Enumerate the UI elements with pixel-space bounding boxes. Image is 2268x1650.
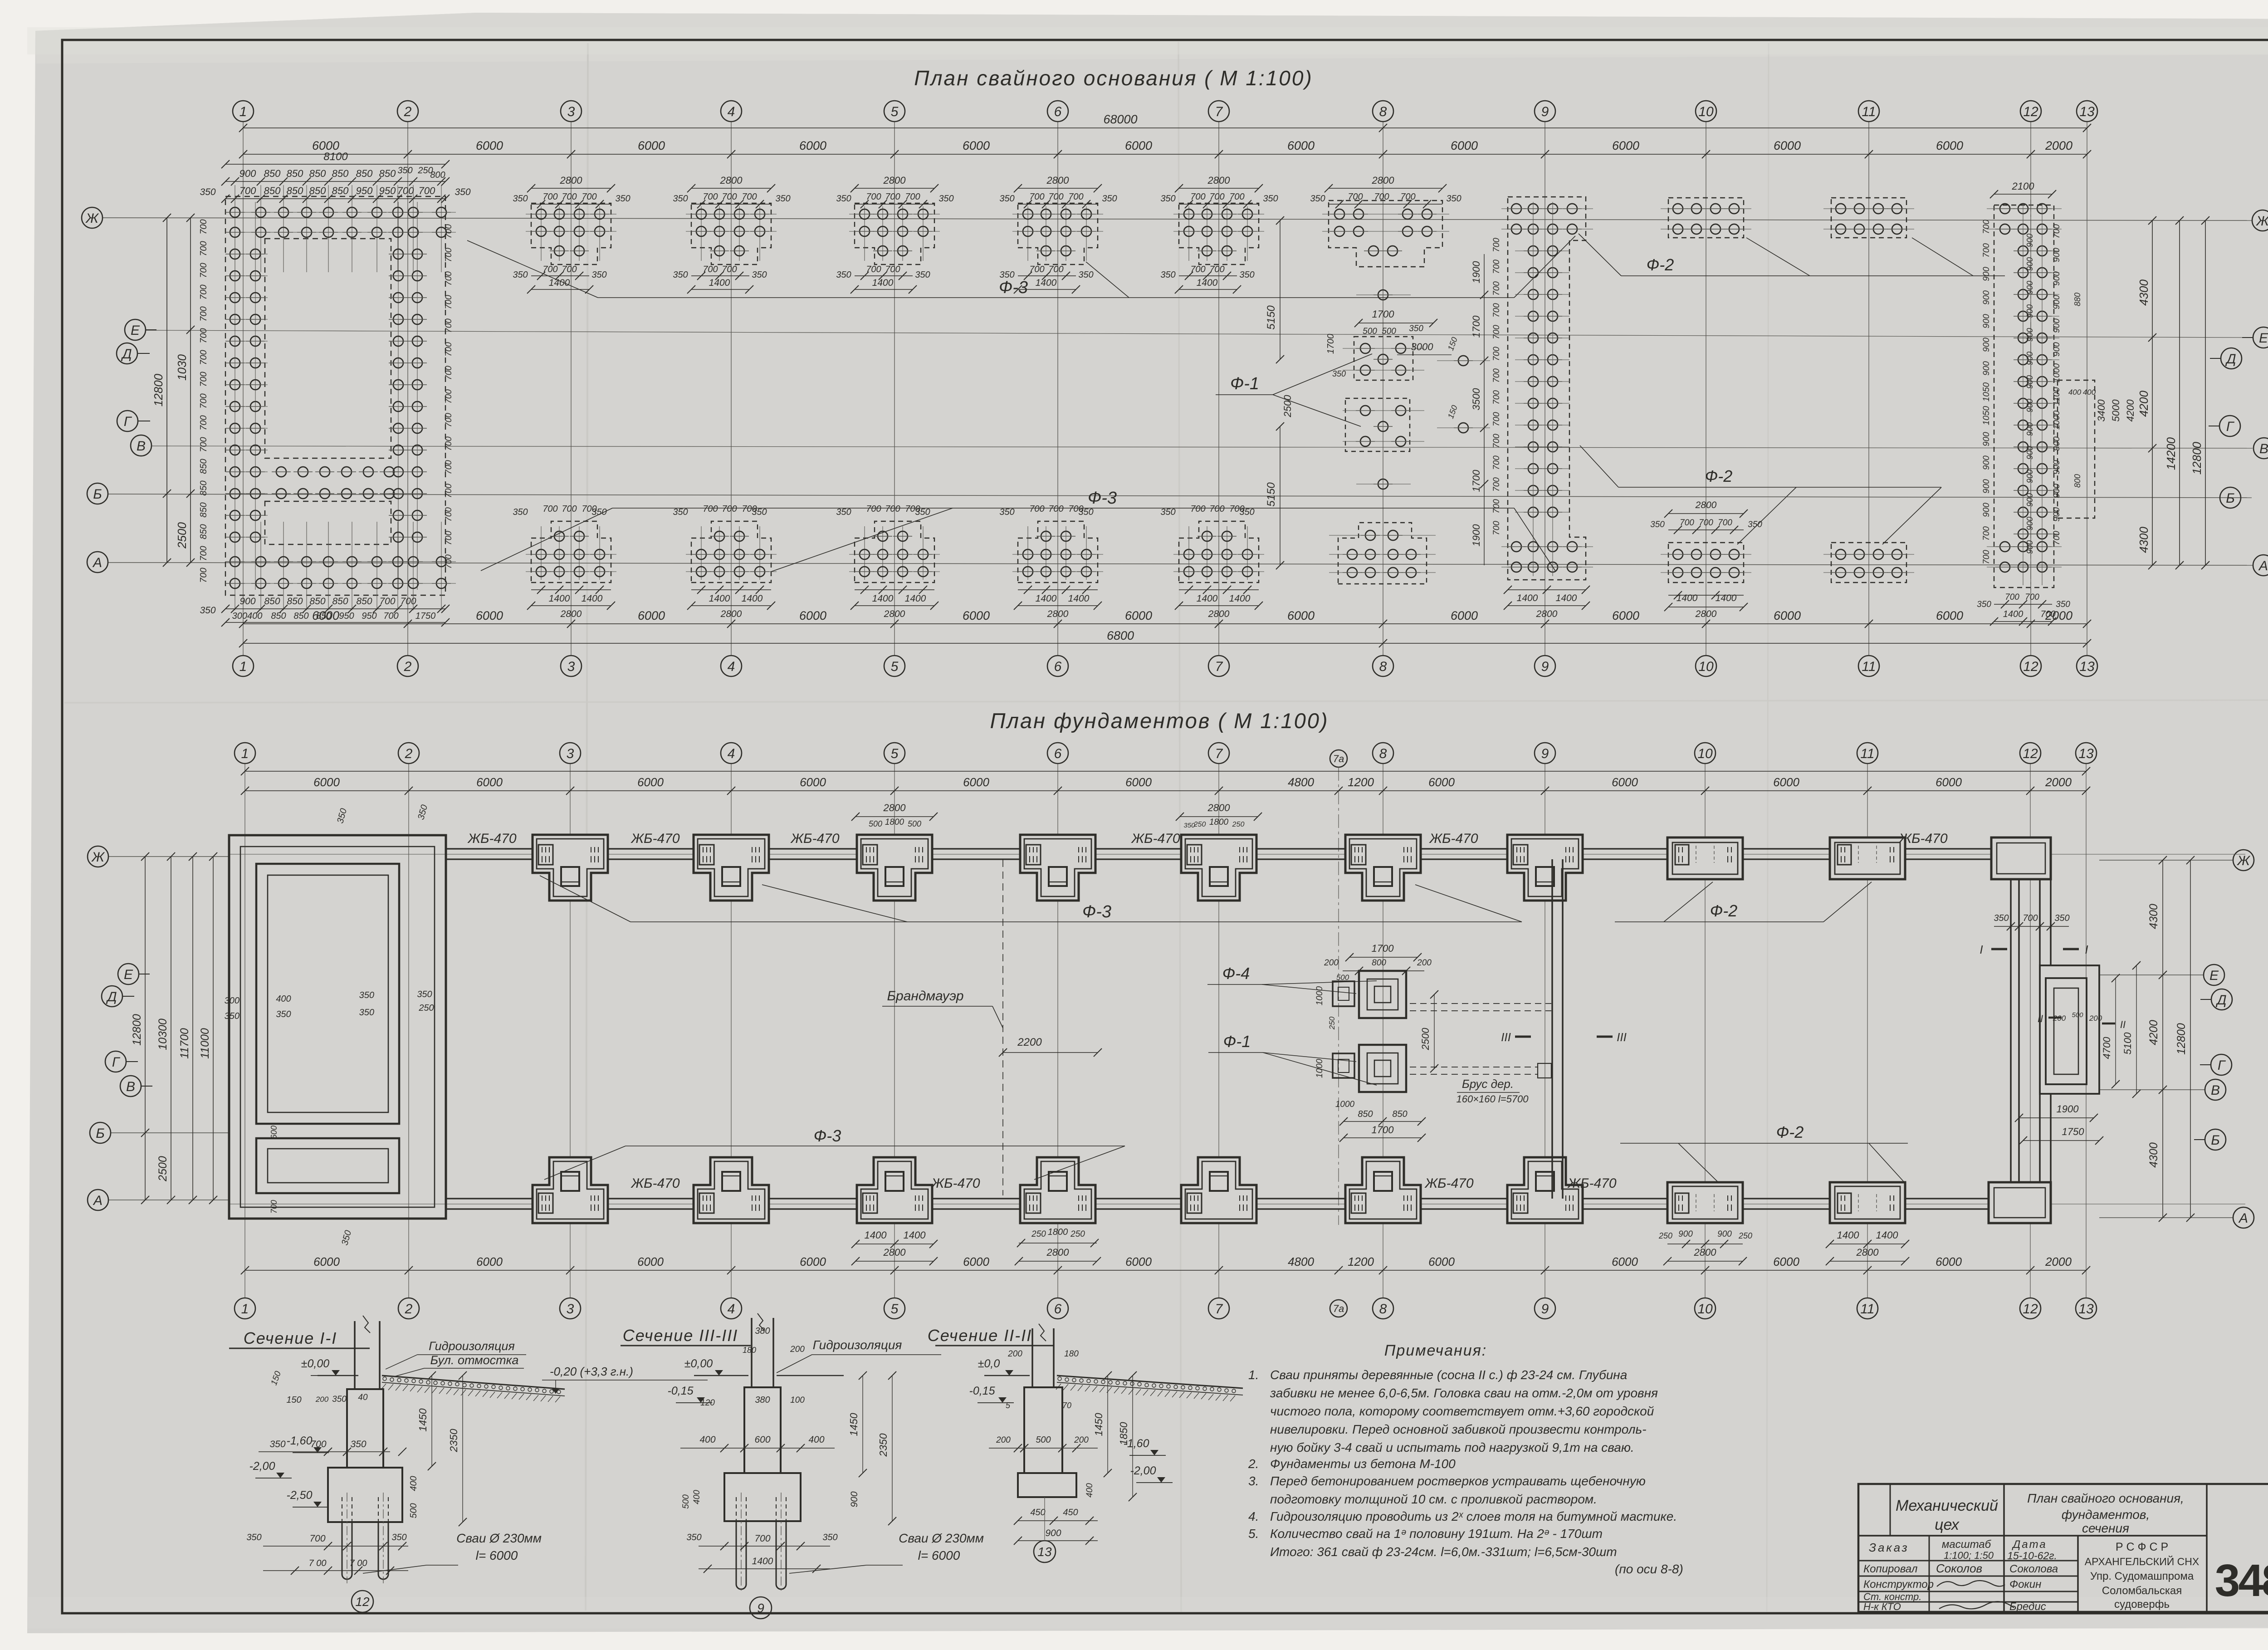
svg-text:350: 350 [359,990,374,1000]
svg-text:700: 700 [444,554,454,569]
svg-text:ЖБ-470: ЖБ-470 [1898,831,1947,846]
svg-text:350: 350 [2054,913,2069,923]
svg-text:400: 400 [692,1490,702,1504]
svg-text:6000: 6000 [1125,1255,1152,1268]
svg-text:1400: 1400 [549,278,570,288]
svg-text:2350: 2350 [448,1429,459,1452]
svg-text:6000: 6000 [1451,609,1478,622]
svg-text:700: 700 [444,295,454,309]
svg-text:700: 700 [1190,504,1205,514]
svg-text:3: 3 [567,659,575,674]
svg-text:900: 900 [2025,257,2034,271]
svg-text:сечения: сечения [2082,1521,2129,1535]
svg-text:350: 350 [1160,507,1175,517]
svg-text:700: 700 [1400,192,1415,202]
svg-text:700: 700 [199,219,209,234]
svg-text:350: 350 [1160,270,1175,280]
svg-text:350: 350 [200,605,215,616]
svg-text:Брус дер.: Брус дер. [1462,1077,1514,1091]
svg-text:5100: 5100 [2122,1032,2133,1055]
svg-text:900: 900 [2052,295,2062,309]
svg-text:350: 350 [999,507,1014,517]
svg-text:5: 5 [891,104,899,119]
svg-text:5150: 5150 [1265,305,1277,330]
svg-text:1400: 1400 [1036,593,1057,604]
svg-text:1400: 1400 [872,593,894,604]
svg-text:850: 850 [199,480,209,495]
svg-text:950: 950 [339,611,354,621]
svg-text:6800: 6800 [1107,629,1134,642]
svg-text:Конструктор: Конструктор [1863,1578,1934,1591]
svg-text:Сечение II-II: Сечение II-II [928,1326,1032,1345]
svg-text:700: 700 [1209,192,1224,202]
svg-text:350: 350 [615,194,630,204]
svg-text:6000: 6000 [1287,609,1315,622]
svg-text:2200: 2200 [1017,1036,1042,1048]
svg-text:6000: 6000 [1428,1255,1455,1268]
svg-text:900: 900 [2052,436,2062,451]
svg-text:700: 700 [1048,504,1063,514]
svg-text:900: 900 [2052,342,2062,357]
svg-text:350: 350 [359,1008,374,1018]
svg-text:2800: 2800 [883,802,906,813]
svg-text:6000: 6000 [638,139,665,152]
svg-text:Г: Г [112,1055,121,1070]
svg-text:900: 900 [2025,399,2034,412]
svg-text:ЖБ-470: ЖБ-470 [630,831,679,846]
svg-text:350: 350 [1310,194,1325,204]
svg-text:Ф-3: Ф-3 [999,278,1028,297]
svg-text:6000: 6000 [799,139,826,152]
svg-text:700: 700 [1492,521,1501,535]
svg-text:Примечания:: Примечания: [1384,1342,1487,1359]
svg-text:13: 13 [2078,1302,2094,1317]
svg-text:План свайного основания,: План свайного основания, [2027,1491,2184,1505]
svg-text:Соломбальская: Соломбальская [2102,1585,2182,1597]
svg-text:2800: 2800 [883,175,906,186]
svg-text:900: 900 [2052,248,2062,262]
svg-text:2: 2 [405,1302,413,1317]
svg-text:350: 350 [397,166,412,176]
svg-text:Е: Е [124,967,133,982]
svg-text:6000: 6000 [638,609,665,622]
svg-text:700: 700 [2052,531,2062,545]
svg-text:900: 900 [2052,507,2062,522]
svg-text:400: 400 [2068,388,2082,397]
svg-text:нивелировки. Перед основной за: нивелировки. Перед основной забивкой про… [1270,1422,1647,1436]
svg-text:700: 700 [199,241,209,256]
svg-text:12800: 12800 [2175,1023,2188,1055]
svg-text:500: 500 [2072,1011,2083,1019]
svg-text:8100: 8100 [323,151,348,163]
svg-text:12: 12 [2023,1302,2038,1317]
svg-text:700: 700 [444,436,454,451]
svg-text:3000: 3000 [1411,341,1434,353]
svg-text:700: 700 [199,568,209,583]
svg-text:12: 12 [2023,746,2038,761]
svg-text:4300: 4300 [2137,527,2151,553]
svg-text:900: 900 [240,596,255,607]
svg-text:700: 700 [269,1200,279,1214]
svg-text:2800: 2800 [1047,609,1069,619]
svg-text:850: 850 [199,502,209,517]
svg-text:350: 350 [938,194,953,204]
svg-text:500: 500 [681,1494,691,1509]
svg-text:900: 900 [2052,460,2062,475]
svg-text:ЖБ-470: ЖБ-470 [930,1176,980,1191]
svg-text:-1,60: -1,60 [1124,1437,1149,1450]
svg-text:900: 900 [1982,314,1991,328]
svg-text:350: 350 [915,270,930,280]
svg-text:880: 880 [2073,293,2082,306]
svg-text:ЖБ-470: ЖБ-470 [1428,831,1478,846]
svg-text:950: 950 [356,185,373,196]
svg-text:350: 350 [1263,194,1278,204]
svg-text:6000: 6000 [1774,609,1801,622]
svg-text:Ж: Ж [85,211,99,226]
svg-text:Р С Ф С Р: Р С Ф С Р [2116,1541,2168,1553]
svg-text:1: 1 [241,1302,249,1317]
svg-text:700: 700 [444,366,454,380]
svg-text:900: 900 [2052,318,2062,333]
svg-text:850: 850 [1358,1109,1373,1119]
svg-text:4800: 4800 [1288,775,1314,789]
svg-text:500: 500 [1382,327,1396,336]
svg-text:2000: 2000 [2045,1255,2072,1268]
svg-text:700: 700 [1068,504,1083,514]
svg-text:700: 700 [444,413,454,427]
svg-text:5: 5 [891,746,899,761]
svg-text:1450: 1450 [848,1413,860,1436]
svg-text:Соколов: Соколов [1936,1562,1982,1575]
svg-text:2800: 2800 [560,175,583,186]
svg-text:850: 850 [264,168,281,179]
svg-text:3: 3 [567,746,574,761]
svg-text:2100: 2100 [2012,181,2035,192]
svg-text:Г: Г [124,414,132,429]
svg-text:700: 700 [1718,518,1732,528]
svg-text:Е: Е [2259,331,2268,346]
svg-text:900: 900 [1982,479,1991,494]
svg-text:700: 700 [199,263,209,278]
svg-text:850: 850 [356,168,373,179]
svg-text:700: 700 [1982,526,1991,541]
svg-text:850: 850 [264,596,280,607]
svg-text:12: 12 [355,1595,370,1609]
svg-text:250: 250 [418,1003,434,1013]
svg-text:Д: Д [2215,993,2226,1008]
svg-text:Фундаменты из бетона М-100: Фундаменты из бетона М-100 [1270,1457,1456,1471]
svg-text:1050: 1050 [1982,406,1991,425]
svg-text:6000: 6000 [1936,139,1963,152]
svg-text:900: 900 [2025,517,2034,530]
svg-text:6000: 6000 [476,1255,503,1268]
svg-text:забивки не менее 6,0-6,5м. Гол: забивки не менее 6,0-6,5м. Головка сваи … [1270,1386,1658,1400]
svg-text:4800: 4800 [1288,1255,1314,1268]
svg-text:700: 700 [240,185,256,196]
svg-text:800: 800 [1372,958,1386,968]
svg-text:3500: 3500 [1471,388,1482,411]
svg-text:6000: 6000 [1936,775,1962,789]
svg-text:380: 380 [755,1395,770,1405]
svg-text:4200: 4200 [2125,399,2136,422]
svg-text:-2,50: -2,50 [287,1489,313,1502]
svg-text:11: 11 [1862,104,1876,119]
svg-text:1200: 1200 [1348,1255,1374,1268]
svg-text:1400: 1400 [709,593,730,604]
svg-text:7 00: 7 00 [309,1558,327,1568]
svg-text:800: 800 [2073,474,2082,488]
svg-text:4200: 4200 [2137,391,2151,417]
svg-text:1100: 1100 [2052,387,2062,406]
svg-text:Ж: Ж [91,850,105,865]
svg-text:850: 850 [309,168,326,179]
svg-text:700: 700 [2052,224,2062,239]
svg-text:850: 850 [1392,1109,1407,1119]
svg-text:6000: 6000 [1287,139,1315,152]
svg-text:1700: 1700 [1326,334,1336,354]
svg-text:2350: 2350 [877,1433,889,1457]
svg-text:1700: 1700 [1372,308,1395,320]
svg-text:Ф-3: Ф-3 [814,1126,841,1145]
svg-text:700: 700 [444,318,454,333]
svg-text:700: 700 [543,504,557,514]
svg-text:3: 3 [567,104,575,119]
svg-text:350: 350 [836,507,851,517]
svg-text:6: 6 [1054,1302,1062,1317]
svg-text:1750: 1750 [2062,1126,2085,1137]
svg-text:850: 850 [199,459,209,474]
svg-text:900: 900 [1982,290,1991,305]
svg-text:10: 10 [1697,1302,1713,1317]
svg-text:200: 200 [790,1345,805,1354]
svg-text:4: 4 [728,746,735,761]
svg-text:2800: 2800 [720,609,742,619]
svg-text:11: 11 [1860,746,1874,761]
svg-text:500: 500 [409,1503,419,1518]
svg-text:1700: 1700 [1372,943,1394,954]
svg-text:9: 9 [1541,659,1549,674]
svg-text:9: 9 [1541,746,1549,761]
svg-text:1800: 1800 [1209,818,1229,827]
svg-text:350: 350 [673,507,688,517]
svg-text:450: 450 [1063,1508,1078,1518]
svg-text:2800: 2800 [884,609,905,619]
svg-text:6000: 6000 [637,775,664,789]
svg-text:7: 7 [1215,104,1223,119]
svg-text:120: 120 [700,1398,715,1408]
svg-text:6000: 6000 [476,609,503,622]
svg-text:1000: 1000 [2052,363,2062,382]
svg-text:700: 700 [383,611,398,621]
svg-text:6000: 6000 [1612,775,1638,789]
svg-text:Гидроизоляция: Гидроизоляция [429,1339,515,1353]
svg-text:Итого: 361 свай ф 23-24см. l=: Итого: 361 свай ф 23-24см. l=6,0м.-331шт… [1270,1545,1617,1559]
svg-text:700: 700 [199,437,209,452]
svg-text:350: 350 [822,1532,837,1542]
svg-text:1450: 1450 [1093,1413,1105,1436]
svg-text:160×160 l=5700: 160×160 l=5700 [1456,1093,1529,1105]
svg-text:6000: 6000 [313,775,340,789]
svg-text:ЖБ-470: ЖБ-470 [630,1176,679,1191]
svg-text:350: 350 [1239,270,1254,280]
svg-text:6000: 6000 [1125,609,1152,622]
svg-text:7: 7 [1215,1302,1223,1317]
svg-text:7: 7 [1215,659,1223,674]
svg-text:2800: 2800 [1046,1247,1070,1258]
svg-text:1200: 1200 [1348,775,1374,789]
svg-text:6000: 6000 [1612,1255,1638,1268]
svg-text:900: 900 [1982,338,1991,352]
svg-text:700: 700 [1492,303,1501,318]
svg-text:10: 10 [1698,104,1714,119]
svg-text:-0,15: -0,15 [969,1385,995,1397]
svg-text:1400: 1400 [1197,278,1218,288]
svg-text:Н-к КТО: Н-к КТО [1863,1601,1901,1612]
svg-text:700: 700 [1492,238,1501,252]
svg-text:700: 700 [1348,192,1363,202]
svg-text:Б: Б [2211,1133,2220,1148]
svg-text:Ф-1: Ф-1 [1230,374,1259,393]
svg-text:700: 700 [885,264,900,274]
svg-text:2.: 2. [1248,1457,1259,1471]
svg-text:11000: 11000 [199,1028,211,1059]
svg-text:350: 350 [2056,600,2070,609]
svg-text:700: 700 [885,192,900,202]
svg-text:В: В [2259,441,2268,456]
svg-text:850: 850 [271,611,286,621]
svg-text:Б: Б [2226,491,2235,506]
svg-text:6000: 6000 [1774,139,1801,152]
svg-text:12: 12 [2023,104,2038,119]
svg-text:700: 700 [310,1439,326,1449]
svg-text:6: 6 [1054,104,1062,119]
svg-text:700: 700 [2040,609,2055,619]
svg-text:900: 900 [1982,455,1991,470]
svg-text:6000: 6000 [313,1255,340,1268]
svg-text:А: А [2238,1211,2248,1226]
svg-text:850: 850 [332,168,349,179]
svg-text:чистого пола, которому соответ: чистого пола, которому соответствует отм… [1270,1404,1654,1418]
svg-text:700: 700 [1492,325,1501,339]
svg-text:350: 350 [417,989,432,999]
svg-text:1400: 1400 [709,278,730,288]
svg-text:Сечение III-III: Сечение III-III [623,1326,738,1345]
svg-text:2500: 2500 [175,522,189,549]
svg-text:1400: 1400 [1837,1229,1860,1241]
svg-text:ЖБ-470: ЖБ-470 [790,831,839,846]
svg-text:500: 500 [1363,327,1377,336]
svg-text:Упр. Судомашпрома: Упр. Судомашпрома [2090,1570,2194,1582]
svg-text:5: 5 [891,659,899,674]
svg-text:350: 350 [225,1011,240,1021]
svg-text:Ж: Ж [2236,853,2250,868]
svg-text:350: 350 [1183,822,1195,829]
svg-text:400: 400 [1085,1483,1095,1498]
svg-text:700: 700 [885,504,900,514]
svg-text:1700: 1700 [1372,1124,1394,1136]
svg-text:4700: 4700 [2101,1037,2112,1059]
svg-text:350: 350 [1409,324,1423,333]
svg-text:Б: Б [93,487,102,502]
svg-text:400: 400 [276,994,291,1004]
svg-text:700: 700 [309,1533,325,1544]
svg-text:350: 350 [269,1439,285,1449]
svg-text:1800: 1800 [885,818,904,827]
svg-text:11: 11 [1862,659,1876,674]
svg-text:700: 700 [2023,913,2038,923]
svg-text:1750: 1750 [415,611,436,621]
svg-text:(по оси 8-8): (по оси 8-8) [1615,1562,1683,1576]
svg-text:7: 7 [1215,746,1223,761]
svg-text:250: 250 [1738,1231,1752,1240]
svg-text:900: 900 [2025,375,2034,389]
svg-text:700: 700 [866,504,881,514]
svg-text:350: 350 [332,1395,347,1404]
svg-text:700: 700 [199,546,209,561]
svg-text:350: 350 [1078,270,1093,280]
svg-text:450: 450 [1030,1508,1045,1518]
svg-text:масштаб: масштаб [1942,1538,1992,1551]
svg-text:250: 250 [1031,1229,1046,1239]
svg-text:6000: 6000 [1936,1255,1962,1268]
svg-text:2800: 2800 [1207,175,1231,186]
svg-text:1.: 1. [1248,1368,1259,1382]
svg-text:700: 700 [1982,220,1991,234]
svg-text:5150: 5150 [1265,482,1277,507]
svg-text:12800: 12800 [2190,441,2204,475]
svg-text:700: 700 [444,224,454,239]
svg-text:8: 8 [1379,746,1387,761]
svg-text:700: 700 [444,484,454,498]
svg-text:700: 700 [703,504,718,514]
svg-text:700: 700 [1492,455,1501,470]
svg-text:1000: 1000 [2052,410,2062,430]
svg-text:1030: 1030 [175,354,189,381]
svg-text:700: 700 [1229,192,1244,202]
svg-text:700: 700 [582,192,596,202]
svg-text:250: 250 [1070,1229,1085,1239]
svg-text:А: А [93,1193,103,1208]
svg-text:150: 150 [286,1395,301,1405]
svg-text:700: 700 [562,504,577,514]
svg-text:700: 700 [722,264,737,274]
svg-text:200: 200 [315,1395,329,1404]
svg-text:700: 700 [379,596,395,607]
svg-text:700: 700 [1492,259,1501,274]
svg-text:900: 900 [2025,493,2034,507]
svg-text:700: 700 [754,1533,770,1544]
svg-text:700: 700 [1374,192,1389,202]
svg-text:70: 70 [1062,1401,1071,1410]
svg-text:700: 700 [400,596,416,607]
svg-text:700: 700 [582,504,596,514]
svg-text:2500: 2500 [1420,1028,1431,1051]
svg-text:l= 6000: l= 6000 [918,1548,960,1562]
svg-text:5: 5 [1006,1401,1011,1410]
svg-text:8: 8 [1379,659,1387,674]
svg-text:350: 350 [673,270,688,280]
svg-text:2500: 2500 [1282,395,1293,418]
svg-text:Механический: Механический [1896,1497,1998,1514]
svg-text:ЖБ-470: ЖБ-470 [1130,831,1180,846]
svg-text:850: 850 [293,611,308,621]
svg-text:700: 700 [1492,281,1501,296]
svg-text:300400: 300400 [232,611,263,621]
svg-text:6000: 6000 [1612,139,1639,152]
svg-text:I: I [2085,943,2088,956]
svg-text:Ф-1: Ф-1 [1223,1032,1251,1051]
